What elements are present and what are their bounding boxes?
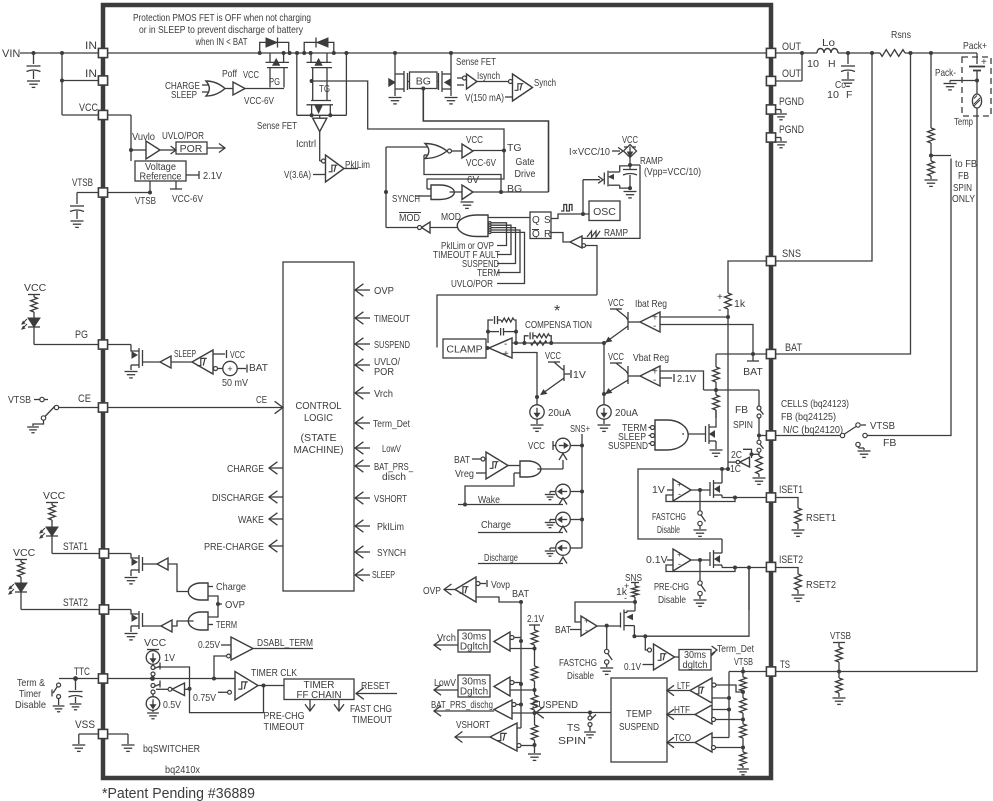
junction rail x289.6 (288, 51, 292, 55)
wire 1V switch link (158, 667, 190, 689)
wire BG output (473, 191, 549, 193)
svg-text:PRE-CHG: PRE-CHG (654, 581, 689, 593)
supply VCC sleep comp (213, 353, 225, 355)
comparator Isynch (457, 77, 464, 79)
LED STAT1 (46, 527, 58, 536)
ground PGND2 (775, 137, 781, 139)
svg-text:Vrch: Vrch (374, 388, 393, 400)
transistor Q3 sense FET (311, 100, 331, 102)
wire FB pin stub (759, 435, 766, 437)
amplifier Ibat Reg (640, 312, 660, 332)
control logic output DISCHARGE (269, 496, 283, 498)
junction comp c (514, 341, 518, 345)
block CLAMP (443, 339, 486, 358)
ground source 2 (550, 491, 556, 493)
wire VSS right (108, 733, 128, 735)
svg-text:RAMP: RAMP (604, 227, 628, 239)
wire 1V comp out (691, 489, 710, 491)
svg-text:-: - (718, 305, 721, 316)
wire IN2/VCC vertical (61, 53, 63, 115)
transistor Q1 protection PMOS body diode (260, 42, 289, 53)
svg-text:Disable: Disable (15, 699, 46, 711)
svg-text:TG: TG (507, 142, 522, 154)
junction pack minus (975, 79, 979, 83)
junction 0.1V comp out (698, 558, 702, 562)
buffer Icntrl sense (319, 115, 321, 118)
svg-text:VTSB: VTSB (830, 630, 851, 642)
svg-text:Gate: Gate (516, 156, 535, 168)
svg-text:Term_Det: Term_Det (717, 643, 754, 655)
wire charge line (478, 532, 563, 534)
wire to FB line (931, 155, 951, 157)
wire timer hysteresis loop (190, 686, 264, 713)
junction ramp node (628, 163, 632, 167)
transistor Q2 reverse PMOS (310, 53, 312, 62)
current source 1V (146, 651, 160, 665)
svg-text:ISET2: ISET2 (779, 554, 803, 566)
transistor Q9 iset2 (709, 552, 711, 566)
comparator OVP (455, 577, 476, 602)
junction TTC b (212, 677, 216, 681)
wire fastchg disable switch (699, 490, 701, 511)
wire TCO inputs (712, 737, 729, 739)
resistor ladder 4 (531, 725, 538, 740)
switch FB SPIN (757, 406, 761, 410)
chip boundary box bq2410x (103, 5, 771, 778)
node SNS tick (631, 582, 639, 584)
svg-text:VTSB: VTSB (734, 656, 753, 668)
svg-text:RSET1: RSET1 (806, 512, 836, 524)
comparator TCO (695, 733, 712, 752)
svg-text:LowV: LowV (382, 443, 401, 455)
wire buffer to comparator (171, 361, 192, 363)
pin TS (right) (766, 667, 775, 676)
junction on VIN wire (32, 51, 36, 55)
glyph clock square wave (561, 205, 572, 212)
wire V(3.6A) input (313, 174, 326, 176)
svg-text:STAT1: STAT1 (63, 541, 88, 553)
wire TCO out (667, 742, 695, 744)
ground CE switch (33, 421, 44, 427)
svg-text:VCC: VCC (43, 490, 66, 502)
wire after inductor (838, 52, 880, 54)
svg-text:CELLS (bq24123): CELLS (bq24123) (781, 398, 849, 410)
svg-text:+: + (584, 616, 589, 626)
wire 1V to line (152, 676, 154, 679)
svg-text:Disable: Disable (658, 594, 686, 606)
comparator VSHORT (490, 723, 517, 751)
transistor Q2 reverse PMOS body diode (304, 42, 334, 53)
wire NAND input 5 (491, 232, 525, 283)
wire iset1 feedback (666, 495, 735, 502)
switch fastchg 2 (605, 649, 609, 653)
svg-text:+: + (677, 550, 682, 560)
wire V(150 mA) input (505, 96, 513, 98)
wire iset2 feedback (666, 565, 735, 572)
ground FB resistor (758, 474, 760, 477)
resistor ladder 3 (531, 695, 538, 710)
comparator 0.1V termdet (648, 648, 652, 652)
junction OVP stat (216, 602, 220, 606)
wire POR output (207, 147, 225, 149)
transistor Q5 sense low-side (450, 53, 452, 96)
ground pack divider (925, 179, 938, 181)
wire CE to control logic (108, 407, 283, 409)
svg-text:BG: BG (416, 76, 431, 88)
svg-text:VSS: VSS (75, 719, 95, 731)
svg-text:0.1V: 0.1V (646, 554, 668, 566)
svg-text:+: + (717, 292, 723, 303)
wire VTSB pin to ext capacitor (77, 192, 98, 194)
wire PG gate drive (245, 88, 284, 90)
comparator BAT_PRS (434, 710, 494, 712)
label Charge stat (208, 586, 213, 588)
svg-text:COMPENSA TION: COMPENSA TION (525, 319, 592, 331)
resistor ts ladder 1 (740, 677, 747, 691)
block 30ms dgltch termdet (679, 650, 711, 671)
svg-text:Ibat Reg: Ibat Reg (635, 298, 667, 310)
wire Q12 gate (143, 563, 158, 565)
svg-text:BAT_PRS_dischg: BAT_PRS_dischg (431, 699, 493, 711)
resistor ts ladder 4 (740, 752, 747, 766)
svg-text:SNS+: SNS+ (570, 423, 590, 435)
junction rail x283.6 (282, 51, 286, 55)
resistor divider upper (715, 354, 717, 367)
block POR (176, 142, 207, 154)
wire OSC gate drive (582, 180, 584, 214)
ground 0.5V source (152, 710, 154, 712)
ground 20uA left (531, 424, 544, 426)
ground RSET1 (797, 524, 799, 529)
amplifier fastchg sense (581, 616, 597, 636)
gate bracket TG (312, 68, 314, 101)
ground pack minus (944, 83, 957, 85)
glyph sawtooth (587, 231, 600, 237)
svg-text:VSHORT: VSHORT (374, 493, 407, 505)
junction VCC internal (129, 148, 133, 152)
label TERM stat (208, 624, 213, 626)
junction ramp gnd node (628, 186, 632, 190)
junction timer fb (188, 687, 192, 691)
wire CE pin (59, 407, 98, 409)
buffer sleep driver (160, 356, 171, 368)
junction wake (463, 503, 467, 507)
resistor STAT2 LED (18, 562, 25, 577)
ground Co (842, 79, 855, 81)
junction error node right (602, 341, 606, 345)
pin IN (left) (98, 76, 107, 85)
ground below Q12 (125, 577, 138, 579)
control logic input Vrch (355, 392, 370, 394)
svg-text:SNS: SNS (782, 248, 801, 260)
junction TTC a (150, 676, 155, 681)
ground VSS right (122, 744, 135, 746)
pin ISET1 (right) (766, 493, 775, 502)
transistor Q1 protection PMOS (269, 53, 271, 62)
svg-text:2.1V: 2.1V (677, 373, 696, 385)
svg-text:-: - (653, 375, 656, 386)
svg-text:Pack+: Pack+ (963, 40, 987, 52)
resistor PG LED (31, 297, 38, 312)
capacitor TTC (75, 679, 77, 691)
source 50mV sleep (218, 368, 223, 370)
transistor Q11 PG driver (108, 344, 131, 346)
svg-text:TS: TS (567, 722, 580, 734)
wire Ibat plus input (660, 316, 728, 318)
ground ts ladder (742, 766, 744, 768)
svg-text:VTSB: VTSB (135, 195, 156, 207)
gate OR charge-sleep (202, 84, 209, 86)
svg-text:V(3.6A): V(3.6A) (284, 169, 311, 181)
junction bat col top (519, 600, 523, 604)
svg-text:2.1V: 2.1V (203, 170, 222, 182)
svg-text:BAT: BAT (785, 342, 802, 354)
svg-text:1k: 1k (734, 298, 746, 310)
buffer Poff driver (233, 82, 245, 95)
control logic input Term_Det (355, 422, 370, 424)
svg-text:TEMP: TEMP (626, 708, 652, 720)
junction thermistor divider top (929, 51, 933, 55)
svg-text:VTSB: VTSB (870, 420, 895, 432)
svg-text:Reference: Reference (140, 172, 182, 183)
svg-text:SUSPEND: SUSPEND (374, 339, 410, 351)
svg-text:1V: 1V (573, 369, 586, 381)
wire FB pin external (776, 435, 840, 437)
current source 20uA left (530, 405, 544, 419)
svg-text:VCC: VCC (545, 350, 561, 362)
svg-text:Q: Q (532, 229, 540, 240)
junction BG box output (421, 87, 425, 91)
transistor Q4 low-side (394, 53, 396, 96)
junction 1V comp out (698, 488, 702, 492)
block 30ms Dgltch lowv (434, 689, 458, 691)
wire Icntrl to PkILim comparator (319, 132, 321, 161)
capacitor 2C (743, 449, 752, 454)
svg-text:IN: IN (85, 40, 97, 52)
svg-text:Q: Q (532, 215, 540, 226)
wire LTF inputs (716, 685, 743, 692)
wire iset2 sense return (634, 568, 749, 637)
svg-text:FB: FB (958, 170, 969, 182)
wire OVP out (444, 589, 455, 591)
junction iset1 a (733, 496, 737, 500)
svg-text:disch: disch (382, 471, 406, 483)
junction sense source b (328, 113, 332, 117)
chevron into source 1 (559, 454, 567, 461)
svg-text:H: H (828, 58, 836, 70)
arrow FAST CHG TIMEOUT (338, 700, 340, 712)
svg-text:0.5V: 0.5V (163, 699, 181, 711)
control logic input OVP (355, 289, 370, 291)
svg-text:Icntrl: Icntrl (296, 138, 316, 150)
svg-text:+: + (503, 349, 509, 360)
wire 1k lower (727, 309, 729, 469)
svg-text:TIMEOUT: TIMEOUT (374, 313, 410, 325)
svg-text:VCC-6V: VCC-6V (244, 95, 274, 107)
wire fastchg out (597, 625, 621, 627)
ground below BG buffer (461, 201, 474, 203)
ground ramp cap (624, 191, 637, 193)
control logic input TIMEOUT (355, 317, 370, 319)
gate NOR drive (386, 146, 428, 148)
wire Ibat minus input (660, 325, 753, 355)
ground RSET2 (797, 590, 799, 594)
svg-text:(STATE: (STATE (301, 432, 337, 444)
thermistor temp (976, 81, 978, 95)
inductor Lo (817, 49, 838, 54)
svg-text:TTC: TTC (74, 666, 90, 678)
wire error to PWM comparator (586, 246, 597, 296)
wire OVP bat input (476, 597, 521, 602)
svg-text:ISET1: ISET1 (779, 484, 803, 496)
gate AND charge-ovp (188, 583, 208, 600)
control logic input SYNCH (355, 551, 370, 553)
svg-text:RESET: RESET (361, 680, 390, 692)
svg-text:2C: 2C (731, 449, 742, 461)
junction FB node (757, 434, 761, 438)
svg-text:10: 10 (807, 58, 819, 70)
current source 20uA right (603, 394, 605, 405)
pin SNS (right) (766, 256, 775, 265)
wire clamp to pwm (437, 295, 597, 348)
junction BAT sense tap (751, 352, 755, 356)
svg-text:Drive: Drive (515, 168, 536, 180)
wire VIN to IN pin (20, 52, 98, 54)
pin TTC (left) (98, 674, 107, 683)
junction IN wire x62 (60, 51, 64, 55)
svg-text:STAT2: STAT2 (63, 597, 88, 609)
pin VSS (left) (98, 729, 107, 738)
ground below Q5 (445, 97, 458, 99)
block TEMP SUSPEND (611, 678, 667, 762)
amplifier Vbat Reg (640, 366, 660, 386)
svg-text:1V: 1V (164, 652, 175, 664)
svg-text:to FB: to FB (955, 158, 977, 170)
pin OUT (right) (766, 76, 775, 85)
wire switch to resistor (758, 452, 760, 456)
svg-text:VIN: VIN (2, 48, 20, 60)
transistor Q10 term sense (620, 613, 622, 628)
svg-text:Poff: Poff (222, 68, 237, 80)
svg-text:VCC: VCC (243, 69, 259, 81)
wire iset1 out (722, 497, 766, 499)
switch PRE-CHG disable (698, 581, 702, 585)
svg-text:(Vpp=VCC/10): (Vpp=VCC/10) (644, 166, 701, 178)
svg-text:Vbat Reg: Vbat Reg (633, 352, 669, 364)
block Voltage Reference (135, 161, 186, 181)
svg-text:PGND: PGND (779, 124, 804, 136)
wire after Rsns (905, 52, 977, 54)
capacitor ramp (623, 169, 637, 171)
control logic output CHARGE (269, 467, 283, 469)
capacitor Co (847, 53, 849, 64)
junction pack divider (929, 154, 933, 158)
junction term right (643, 634, 647, 638)
control logic input BAT_PRS (355, 465, 370, 467)
ground TS SPIN switch (584, 731, 596, 733)
svg-text:PkILim: PkILim (345, 159, 370, 171)
control logic input PkILim (355, 525, 370, 527)
svg-text:Lo: Lo (822, 37, 835, 49)
wire TG feedback to AND (427, 151, 504, 190)
svg-text:bq2410x: bq2410x (165, 764, 201, 776)
svg-text:PGND: PGND (779, 96, 804, 108)
wire sense FET rails (296, 53, 298, 115)
wire vshort out (455, 736, 490, 738)
junction BG out (499, 190, 503, 194)
svg-text:TERM: TERM (216, 619, 237, 631)
svg-text:VSHORT: VSHORT (456, 719, 490, 731)
svg-text:VCC: VCC (466, 134, 483, 146)
wire error minus line (512, 342, 604, 344)
ground prechg switch (699, 596, 701, 600)
svg-text:Charge: Charge (481, 519, 511, 531)
junction lowv bat (519, 682, 523, 686)
block TIMER FF CHAIN (284, 679, 354, 700)
gate bracket PG driver (269, 68, 271, 88)
chevron into source 3 (559, 526, 567, 533)
wire OUT2 join (775, 80, 802, 82)
svg-text:+: + (981, 57, 987, 68)
svg-text:SYNCH: SYNCH (392, 193, 420, 205)
node Vovp (480, 583, 486, 585)
svg-text:-: - (653, 321, 656, 332)
wire ovp input b (208, 604, 218, 617)
junction ladder 2 (533, 688, 537, 692)
wire BAT kelvin (775, 53, 911, 354)
svg-text:10: 10 (827, 89, 839, 101)
wire vshort inputs (517, 727, 521, 729)
transistor Q7 divider disable (709, 410, 716, 427)
junction rail x451 (449, 51, 453, 55)
switch TS SPIN (589, 713, 591, 717)
wire S input (551, 214, 589, 219)
svg-text:Sense FET: Sense FET (257, 120, 297, 132)
resistor ladder 1 (531, 630, 538, 645)
wire MODbar (386, 227, 418, 229)
junction bat sense (909, 51, 913, 55)
transistor Q13 STAT2 driver (109, 609, 131, 611)
wire dsabl out (253, 648, 313, 650)
svg-text:Protection PMOS FET is OFF whe: Protection PMOS FET is OFF when not char… (133, 12, 311, 24)
svg-text:PRE-CHARGE: PRE-CHARGE (204, 541, 264, 553)
wire gate1 to buffer1 (168, 564, 194, 592)
wire ramp to PWM comparator (582, 165, 640, 238)
resistor 1k sense (725, 293, 732, 309)
svg-text:or in SLEEP to prevent dischar: or in SLEEP to prevent discharge of batt… (139, 24, 304, 36)
wire 20uA right gnd (603, 419, 605, 424)
pin IN (left) (98, 48, 107, 57)
wire error node vertical (603, 343, 605, 394)
ground fastchg 2 (606, 664, 608, 667)
svg-text:Pack-: Pack- (935, 67, 956, 79)
junction LTF ts (727, 696, 731, 700)
wire dsabl input (214, 656, 227, 679)
junction ts vtsb ext (837, 670, 841, 674)
pin CE (left) (98, 403, 107, 412)
wire SNS+ column (581, 434, 583, 548)
wire and input lower (465, 473, 514, 504)
wire comparator to POR (160, 149, 176, 151)
svg-text:Vrch: Vrch (437, 632, 456, 644)
pin ISET2 (right) (766, 562, 775, 571)
svg-text:FB: FB (735, 404, 748, 416)
junction ladder 4 (533, 743, 537, 747)
svg-text:VCC: VCC (528, 440, 545, 452)
svg-text:VTSB: VTSB (72, 177, 93, 189)
ground fastchg switch (699, 526, 701, 530)
svg-text:Rsns: Rsns (891, 29, 911, 41)
